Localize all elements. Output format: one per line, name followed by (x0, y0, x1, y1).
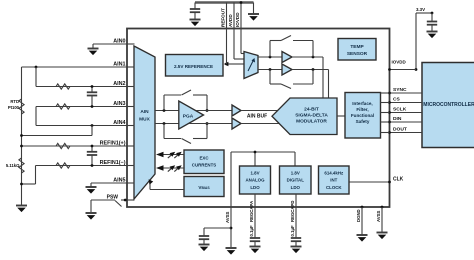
svg-text:DIN: DIN (393, 116, 402, 122)
svg-text:ANALOG: ANALOG (245, 178, 265, 183)
svg-text:SYNC: SYNC (393, 87, 407, 93)
svg-text:RTD: RTD (10, 99, 19, 104)
svg-text:0.1µF: 0.1µF (249, 225, 254, 236)
svg-text:AIN3: AIN3 (113, 101, 125, 107)
svg-text:AIN4: AIN4 (113, 120, 125, 126)
svg-text:REGCAPD: REGCAPD (290, 201, 295, 223)
svg-text:CURRENTS: CURRENTS (192, 163, 216, 168)
svg-text:AIN0: AIN0 (113, 39, 125, 45)
svg-text:MICROCONTROLLER: MICROCONTROLLER (423, 102, 474, 108)
svg-text:LDO: LDO (250, 185, 260, 190)
svg-text:TEMP: TEMP (350, 44, 364, 50)
svg-text:DIGITAL: DIGITAL (287, 178, 305, 183)
svg-text:0.1µF: 0.1µF (290, 225, 295, 236)
svg-text:AVDD: AVDD (228, 14, 233, 27)
svg-text:5.11kΩ: 5.11kΩ (6, 163, 20, 168)
svg-text:Pt100: Pt100 (8, 105, 20, 110)
svg-text:AVSS: AVSS (376, 210, 381, 222)
svg-text:AIN: AIN (140, 109, 149, 115)
svg-text:SENSOR: SENSOR (347, 51, 368, 57)
svg-text:REFIN1(−): REFIN1(−) (100, 160, 126, 166)
svg-text:614.4kHz: 614.4kHz (324, 171, 344, 176)
svg-text:CLOCK: CLOCK (326, 185, 342, 190)
svg-text:IOVDD: IOVDD (392, 60, 407, 65)
svg-text:1.8V: 1.8V (250, 171, 259, 176)
svg-text:AIN5: AIN5 (113, 178, 125, 184)
svg-text:CS: CS (393, 97, 401, 103)
svg-text:Safety: Safety (356, 119, 370, 124)
svg-text:IOVDD: IOVDD (235, 12, 240, 27)
svg-text:2.5V REFERENCE: 2.5V REFERENCE (174, 64, 213, 69)
svg-text:EXC: EXC (199, 156, 209, 161)
svg-text:PGA: PGA (183, 113, 194, 119)
svg-text:3.3V: 3.3V (416, 7, 425, 12)
svg-text:INT: INT (330, 178, 337, 183)
svg-text:AIN1: AIN1 (113, 62, 125, 68)
svg-text:1.8V: 1.8V (291, 171, 300, 176)
svg-text:DGND: DGND (356, 209, 361, 222)
svg-text:SCLK: SCLK (393, 107, 407, 113)
svg-text:AIN BUF: AIN BUF (247, 114, 267, 120)
svg-text:CLK: CLK (393, 177, 404, 183)
svg-text:24-BIT: 24-BIT (304, 107, 319, 113)
svg-text:Filter,: Filter, (356, 107, 368, 112)
svg-text:MODULATOR: MODULATOR (296, 119, 327, 125)
svg-text:REFIN1(+): REFIN1(+) (100, 141, 126, 147)
svg-text:REGCAPA: REGCAPA (249, 201, 254, 222)
svg-text:Functional: Functional (351, 113, 374, 118)
svg-text:SIGMA-DELTA: SIGMA-DELTA (295, 113, 328, 119)
svg-text:VBIAS: VBIAS (198, 185, 210, 190)
svg-text:MUX: MUX (139, 117, 150, 123)
svg-text:AIN2: AIN2 (113, 81, 125, 87)
svg-text:LDO: LDO (291, 185, 301, 190)
svg-text:REFOUT: REFOUT (221, 8, 226, 27)
svg-text:DOUT: DOUT (393, 127, 407, 133)
svg-text:AVSS: AVSS (225, 211, 230, 223)
svg-text:PSW: PSW (107, 195, 119, 201)
svg-text:Interface,: Interface, (352, 101, 372, 106)
